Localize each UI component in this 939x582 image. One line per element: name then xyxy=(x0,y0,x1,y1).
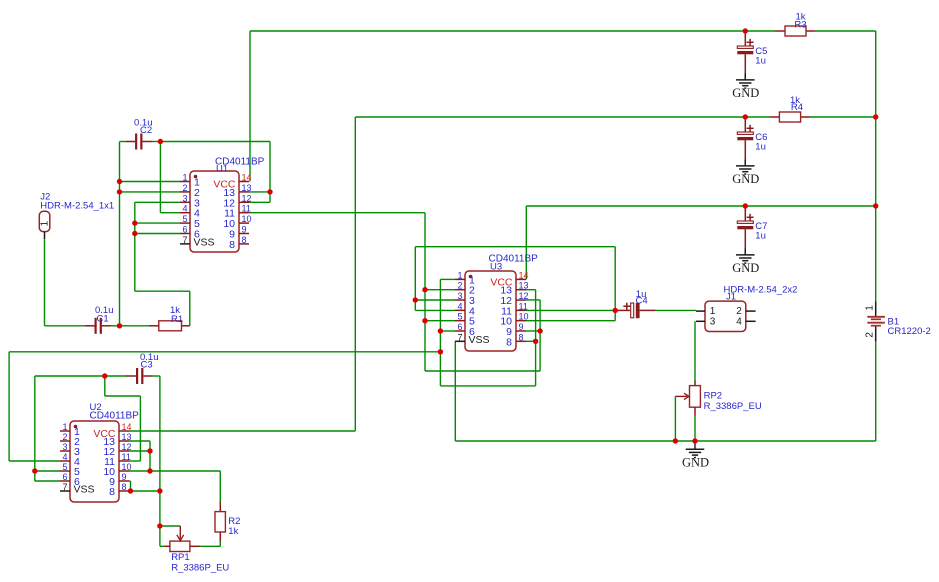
wire under U3 lower xyxy=(425,370,540,372)
svg-text:3: 3 xyxy=(182,193,187,203)
wire U2 pin9 xyxy=(129,481,131,491)
wire U2 pin10 to R2 xyxy=(129,470,220,472)
node U3 pin3 xyxy=(413,297,418,302)
svg-text:VCC: VCC xyxy=(490,276,513,288)
node C7 top xyxy=(743,203,748,208)
ground xyxy=(732,160,759,187)
wire U3 pin13 drop xyxy=(535,290,537,386)
svg-text:J1: J1 xyxy=(726,292,736,303)
svg-text:1: 1 xyxy=(457,270,462,280)
potentiometer RP2 R_3386P_EU xyxy=(675,381,761,416)
svg-text:8: 8 xyxy=(242,235,247,245)
wire C5 gnd lead xyxy=(744,74,746,80)
svg-text:1: 1 xyxy=(182,173,187,183)
capacitor C6 1u xyxy=(737,118,767,160)
wire C2 net horizontal xyxy=(160,141,270,143)
wire battery bottom xyxy=(875,342,877,441)
svg-text:8: 8 xyxy=(109,486,115,498)
svg-text:3: 3 xyxy=(62,442,67,452)
svg-text:2: 2 xyxy=(182,183,187,193)
wire U2 pin13 drop xyxy=(149,441,151,471)
wire U1 pin3 drop xyxy=(134,202,136,291)
node rail C7 xyxy=(873,203,878,208)
svg-text:8: 8 xyxy=(229,239,235,251)
wire U1 pin13 xyxy=(249,191,270,193)
node U1 pin2 xyxy=(117,189,122,194)
wire U3 pin11 to C4 xyxy=(526,309,615,311)
resistor R1 1k xyxy=(149,305,190,331)
wire RP2 wiper drop xyxy=(674,396,676,441)
svg-text:8: 8 xyxy=(519,332,524,342)
svg-text:R_3386P_EU: R_3386P_EU xyxy=(704,401,762,412)
svg-text:10: 10 xyxy=(519,312,529,322)
wire U2 pin6 xyxy=(35,480,60,482)
svg-text:9: 9 xyxy=(122,472,127,482)
node U1 pin13 xyxy=(267,189,272,194)
svg-text:4: 4 xyxy=(62,452,67,462)
svg-text:9: 9 xyxy=(519,322,524,332)
wire C7 row to U3 pin14 xyxy=(525,206,527,279)
node U3 pin5 xyxy=(422,318,427,323)
svg-text:1u: 1u xyxy=(755,141,766,152)
resistor R4 1k xyxy=(770,95,811,122)
capacitor C4 1u xyxy=(615,289,655,318)
svg-text:4: 4 xyxy=(736,317,742,328)
IC U2 CD4011BP xyxy=(60,402,139,502)
svg-text:GND: GND xyxy=(682,455,709,469)
wire U2 pin14 xyxy=(129,430,355,432)
svg-text:CD4011BP: CD4011BP xyxy=(90,410,140,421)
wire R4 right to rail xyxy=(811,116,876,118)
wire C1 to junction xyxy=(111,325,120,327)
IC U1 CD4011BP xyxy=(180,157,265,253)
wire C3 row xyxy=(35,375,126,377)
wire C2 left drop to C1 xyxy=(119,142,121,326)
svg-text:4: 4 xyxy=(182,204,187,214)
capacitor C3 0.1u xyxy=(126,352,159,384)
svg-text:11: 11 xyxy=(242,204,251,214)
svg-text:3: 3 xyxy=(710,317,716,328)
svg-text:10: 10 xyxy=(242,214,252,224)
svg-text:9: 9 xyxy=(242,225,247,235)
header J2 HDR-M-2.54_1x1 xyxy=(39,192,114,240)
capacitor C7 1u xyxy=(737,207,767,249)
svg-text:1u: 1u xyxy=(755,230,766,241)
wire U2 pin11 drop xyxy=(139,396,141,461)
svg-text:RP2: RP2 xyxy=(704,391,722,402)
wire U1 pin13-pin12 link xyxy=(249,142,270,203)
svg-text:C2: C2 xyxy=(140,125,152,136)
svg-text:7: 7 xyxy=(457,332,462,342)
svg-text:HDR-M-2.54_1x1: HDR-M-2.54_1x1 xyxy=(40,201,114,212)
svg-text:1k: 1k xyxy=(228,526,238,537)
svg-text:U1: U1 xyxy=(216,164,228,175)
wire U1 pin6 xyxy=(135,233,180,235)
svg-text:GND: GND xyxy=(732,261,759,275)
svg-text:VSS: VSS xyxy=(194,236,215,248)
node RP2 bottom gnd xyxy=(692,438,697,443)
svg-text:VCC: VCC xyxy=(213,179,236,191)
svg-text:5: 5 xyxy=(182,214,187,224)
node rail R4 xyxy=(873,114,878,119)
svg-text:6: 6 xyxy=(62,472,67,482)
svg-text:GND: GND xyxy=(732,172,759,186)
wire U1 pin2 xyxy=(120,191,181,193)
svg-text:14: 14 xyxy=(122,422,132,432)
svg-text:12: 12 xyxy=(242,193,252,203)
wire U2 pin13 xyxy=(129,440,150,442)
potentiometer RP1 R_3386P_EU xyxy=(165,526,230,574)
wire U2 pin11 xyxy=(129,460,140,462)
node U2 pin10 xyxy=(147,468,152,473)
wire U3 pin12 xyxy=(526,299,540,301)
wire R2 top drop xyxy=(219,471,221,502)
wire U3 pin6 xyxy=(440,330,455,332)
svg-text:6: 6 xyxy=(182,225,187,235)
svg-text:GND: GND xyxy=(732,86,759,100)
ground xyxy=(732,74,759,101)
wire U3 pin13 xyxy=(526,289,536,291)
svg-text:VSS: VSS xyxy=(74,484,95,496)
wire U2 pin8 xyxy=(129,490,160,492)
wire R4 row xyxy=(355,116,769,118)
svg-text:RP1: RP1 xyxy=(171,552,189,563)
svg-text:CR1220-2: CR1220-2 xyxy=(888,326,931,337)
node U3 pin2 xyxy=(422,287,427,292)
wire C3 right long drop xyxy=(159,376,161,546)
capacitor C5 1u xyxy=(737,32,767,74)
wire C3 right segment xyxy=(153,375,160,377)
svg-text:VSS: VSS xyxy=(469,334,490,346)
wire U3 pin7 drop xyxy=(454,341,456,441)
wire C3 jog down xyxy=(105,376,141,396)
svg-text:2: 2 xyxy=(457,281,462,291)
wire VCC mid drop xyxy=(354,117,356,431)
node C1 R1 xyxy=(117,323,122,328)
node U2 pin12 xyxy=(147,448,152,453)
wire U1 pin4 xyxy=(160,212,180,214)
svg-text:1: 1 xyxy=(62,422,67,432)
svg-text:C3: C3 xyxy=(141,360,153,371)
wire rail right segment xyxy=(875,117,877,301)
node U3 pin6 xyxy=(438,328,443,333)
svg-text:R1: R1 xyxy=(171,314,183,325)
node C3 left xyxy=(102,373,107,378)
svg-text:1: 1 xyxy=(40,220,51,226)
node U2 pin9 xyxy=(128,488,133,493)
wire U3 pin1 drop xyxy=(439,279,441,386)
resistor R3 1k xyxy=(775,12,815,37)
node C2 right xyxy=(158,139,163,144)
wire RP1 wiper link xyxy=(160,525,180,527)
wire C7 gnd lead xyxy=(744,249,746,255)
node U2 pin5 xyxy=(32,468,37,473)
wire U3 pin12 drop xyxy=(539,300,541,371)
ground xyxy=(682,441,709,469)
node C4 plus xyxy=(613,308,618,313)
svg-text:7: 7 xyxy=(182,235,187,245)
node U2 pin8 xyxy=(157,488,162,493)
wire under U3 lowest xyxy=(440,385,535,387)
node RP2 wiper gnd xyxy=(673,438,678,443)
wire U3 pin8 xyxy=(526,340,536,342)
wire U3 pin10 jog xyxy=(526,320,615,322)
node U3 pin9 xyxy=(537,328,542,333)
ground xyxy=(732,249,759,276)
svg-text:8: 8 xyxy=(122,482,127,492)
wire above U3 right drop xyxy=(614,247,616,321)
svg-text:13: 13 xyxy=(519,281,529,291)
wire C4 to J1 pin1 xyxy=(655,309,696,311)
svg-text:10: 10 xyxy=(122,462,132,472)
battery B1 CR1220-2 xyxy=(865,301,931,341)
wire U3 pin4 xyxy=(415,309,455,311)
svg-text:5: 5 xyxy=(62,462,67,472)
wire RP2 bottom xyxy=(694,416,696,442)
svg-text:2: 2 xyxy=(736,306,742,317)
resistor R2 1k xyxy=(215,502,240,542)
wire C2 right segment xyxy=(153,141,161,143)
svg-text:11: 11 xyxy=(122,452,131,462)
node U3 net E xyxy=(438,349,443,354)
node U1 pin1 xyxy=(117,179,122,184)
wire R1 link horizontal xyxy=(135,290,190,292)
svg-text:1: 1 xyxy=(865,305,876,311)
svg-text:13: 13 xyxy=(242,183,252,193)
wire C6 gnd lead xyxy=(744,160,746,166)
wire U3 pin3 xyxy=(415,299,455,301)
capacitor C1 0.1u xyxy=(85,305,114,334)
wire U3 pin5 xyxy=(425,320,455,322)
wire junction to R1 xyxy=(120,325,149,327)
svg-text:VCC: VCC xyxy=(93,428,116,440)
wire above U3 xyxy=(415,246,615,248)
svg-text:R3: R3 xyxy=(794,19,806,30)
svg-text:14: 14 xyxy=(242,173,252,183)
svg-text:C1: C1 xyxy=(97,313,109,324)
wire R1 link vertical xyxy=(189,291,191,326)
wire U3 pin9 xyxy=(526,330,540,332)
wire U1 pin11 drop xyxy=(424,213,426,371)
svg-text:6: 6 xyxy=(457,322,462,332)
svg-text:12: 12 xyxy=(122,442,132,452)
capacitor C2 0.1u xyxy=(126,118,153,150)
node RP1 wiper xyxy=(157,523,162,528)
svg-text:4: 4 xyxy=(457,301,462,311)
wire J2 drop xyxy=(44,239,46,326)
svg-text:1: 1 xyxy=(710,306,716,317)
wire GND bottom rail xyxy=(455,440,875,442)
wire above U3 left drop xyxy=(414,247,416,311)
svg-text:2: 2 xyxy=(865,332,876,338)
wire U1 pin14 to top rail xyxy=(249,31,251,182)
wire U2 pin12 xyxy=(129,450,150,452)
wire U1 pin3 xyxy=(135,201,180,203)
svg-text:11: 11 xyxy=(519,301,528,311)
svg-text:C4: C4 xyxy=(636,296,648,307)
svg-text:R4: R4 xyxy=(791,102,803,113)
IC U3 CD4011BP xyxy=(455,254,538,352)
svg-text:3: 3 xyxy=(457,291,462,301)
node U3 pin8 xyxy=(533,339,538,344)
wire U2 pin4 xyxy=(9,460,60,462)
svg-text:14: 14 xyxy=(519,270,529,280)
svg-text:12: 12 xyxy=(519,291,529,301)
header J1 HDR-M-2.54_2x2 xyxy=(696,285,797,332)
svg-text:1u: 1u xyxy=(755,55,766,66)
wire U1 pin5 xyxy=(135,222,180,224)
svg-text:2: 2 xyxy=(62,432,67,442)
wire U2 pin4 vertical xyxy=(8,352,10,461)
wire U3 pin1 xyxy=(440,278,455,280)
svg-text:7: 7 xyxy=(62,482,67,492)
node U1 pin6 xyxy=(132,231,137,236)
wire R3 right to rail xyxy=(815,31,876,117)
wire R2 bottom link xyxy=(200,542,220,546)
node C6 top xyxy=(743,114,748,119)
wire C3 left drop xyxy=(34,376,36,481)
wire U1 pin11 long xyxy=(249,212,425,214)
svg-text:U3: U3 xyxy=(490,261,502,272)
wire VCC top rail xyxy=(250,30,775,32)
wire U2 pin5 xyxy=(35,470,60,472)
node U1 pin5 xyxy=(132,220,137,225)
wire C2 left segment xyxy=(120,141,127,143)
wire J2 to C1 xyxy=(45,325,86,327)
svg-text:13: 13 xyxy=(122,432,132,442)
wire U1 pin1 xyxy=(120,181,181,183)
wire C2 to U1 pin4 drop xyxy=(159,142,161,213)
node C5 top xyxy=(743,28,748,33)
wire C7 row xyxy=(526,205,875,207)
svg-text:8: 8 xyxy=(506,336,512,348)
svg-text:5: 5 xyxy=(457,312,462,322)
wire RP1 left link xyxy=(160,545,165,547)
wire long net U2pin4-U3 xyxy=(9,351,440,353)
wire U3 pin2 xyxy=(425,289,455,291)
wire J1 pin3 to RP2 xyxy=(694,321,696,380)
svg-text:R_3386P_EU: R_3386P_EU xyxy=(171,563,229,574)
